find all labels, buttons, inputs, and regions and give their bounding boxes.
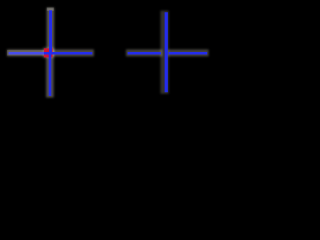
wire casing: left vertical wire, top bbox=[47, 8, 55, 54]
wire casing: left horizontal wire bbox=[7, 49, 94, 56]
wire casing cap: left vertical wire top end bbox=[47, 8, 54, 11]
wire casing: left vertical wire, bottom bbox=[46, 53, 54, 98]
wire casing: right horizontal wire, left segment bbox=[126, 49, 162, 56]
junction marker: red square at connected crossing bbox=[44, 48, 53, 57]
wire casing: right vertical wire bbox=[160, 11, 168, 94]
wire: left horizontal bbox=[9, 52, 93, 55]
wire: right horizontal, left segment (break at crossover) bbox=[128, 52, 161, 55]
wire: right vertical (crosses over, no connection) bbox=[165, 12, 168, 92]
wire: left vertical, bottom segment bbox=[49, 53, 52, 96]
wire: right horizontal, right segment (break at crossover) bbox=[169, 52, 208, 55]
wire: left vertical, top segment bbox=[49, 10, 52, 53]
glow/casing layer bbox=[7, 8, 209, 98]
schematic: two wire crossings (left: connected junction with square marker; right: unconnected crossover) bbox=[0, 0, 220, 111]
junction marker glow bbox=[43, 47, 54, 58]
wire casing: right horizontal wire, right segment bbox=[167, 49, 209, 56]
casing overlay dulling left arm of left horizontal wire bbox=[7, 50, 44, 56]
